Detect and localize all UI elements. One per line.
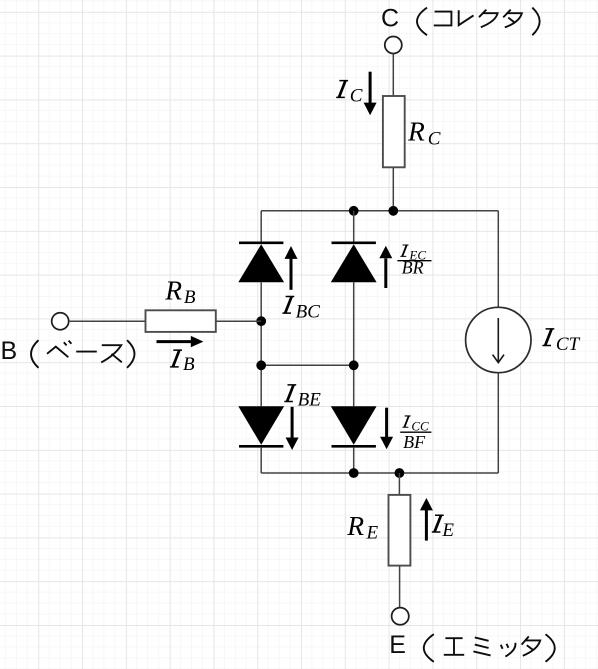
node dot base junction bbox=[256, 316, 266, 326]
label B (base) bbox=[1, 337, 135, 368]
svg-text:BR: BR bbox=[402, 258, 424, 278]
terminal E bbox=[392, 608, 409, 625]
svg-text:C: C bbox=[381, 4, 399, 32]
node dot top mid bbox=[349, 206, 359, 216]
node dot mid middle bbox=[349, 360, 359, 370]
svg-text:R: R bbox=[407, 116, 425, 147]
svg-text:CC: CC bbox=[411, 418, 429, 433]
svg-text:R: R bbox=[164, 275, 182, 306]
terminal C bbox=[385, 37, 402, 54]
wire right branch upper bbox=[497, 211, 499, 307]
label C (collector) bbox=[381, 4, 540, 35]
svg-text:R: R bbox=[346, 510, 364, 541]
wire left branch upper bbox=[260, 211, 262, 242]
current arrow ICC/BF bbox=[380, 408, 393, 450]
wire RE to E terminal bbox=[399, 566, 401, 608]
svg-text:BE: BE bbox=[298, 390, 322, 411]
node dot bottom mid bbox=[349, 468, 359, 478]
wire top rail bbox=[261, 210, 498, 212]
label RB bbox=[164, 275, 196, 309]
wire RC to top rail bbox=[392, 167, 394, 211]
resistor RB bbox=[146, 310, 216, 332]
svg-text:B: B bbox=[183, 354, 195, 375]
label RC bbox=[407, 116, 441, 150]
current arrow IC bbox=[364, 72, 377, 116]
terminal B bbox=[52, 313, 69, 330]
label fraction ICC/BF bbox=[400, 416, 431, 452]
diode D4 (CC) bbox=[331, 406, 377, 446]
svg-text:BF: BF bbox=[403, 432, 426, 452]
svg-text:C: C bbox=[428, 128, 441, 149]
diode D1 (base-collector) bbox=[238, 243, 284, 282]
svg-text:E: E bbox=[389, 631, 406, 659]
svg-text:BC: BC bbox=[296, 301, 321, 322]
wire right branch lower bbox=[497, 373, 499, 473]
node dot bottom RE bbox=[395, 468, 405, 478]
wire middle branch lower bbox=[353, 447, 355, 473]
wire RB to bridge bbox=[216, 320, 261, 322]
svg-text:B: B bbox=[1, 337, 18, 365]
label fraction IEC/BR bbox=[397, 245, 431, 278]
label IBC bbox=[282, 296, 320, 322]
current arrow IEC/BR bbox=[379, 246, 392, 288]
current arrow IE bbox=[420, 498, 433, 541]
resistor RE bbox=[389, 495, 411, 566]
svg-text:E: E bbox=[366, 522, 379, 543]
label IE bbox=[432, 515, 455, 541]
svg-text:B: B bbox=[184, 287, 196, 308]
node dot mid left bbox=[256, 360, 266, 370]
svg-text:E: E bbox=[441, 520, 454, 541]
label IBE bbox=[284, 385, 321, 411]
label E (emitter) bbox=[389, 631, 554, 662]
svg-text:C: C bbox=[350, 86, 363, 107]
label ICT bbox=[542, 329, 580, 355]
wire middle branch upper bbox=[353, 211, 355, 242]
label RE bbox=[346, 510, 378, 544]
wire bottom rail bbox=[261, 472, 498, 474]
wire middle branch middle bbox=[353, 282, 355, 406]
current source ICT bbox=[466, 307, 531, 372]
wire C terminal to RC bbox=[392, 54, 394, 96]
wire left branch lower bbox=[260, 447, 262, 473]
wire mid rail (base bar) bbox=[261, 364, 354, 366]
wire B terminal to RB bbox=[69, 320, 146, 322]
label IB bbox=[170, 350, 195, 375]
node dot top RC bbox=[388, 206, 398, 216]
wire left branch middle bbox=[260, 282, 262, 406]
wire bottom rail to RE bbox=[398, 473, 400, 495]
svg-text:CT: CT bbox=[556, 334, 581, 355]
current arrow IB bbox=[157, 336, 204, 347]
resistor RC bbox=[383, 96, 405, 167]
diode D3 (base-emitter) bbox=[238, 406, 284, 446]
current arrow IBE bbox=[286, 407, 299, 450]
label IC bbox=[336, 81, 363, 107]
diode D2 (EC) bbox=[331, 243, 377, 282]
current arrow IBC bbox=[285, 246, 298, 290]
